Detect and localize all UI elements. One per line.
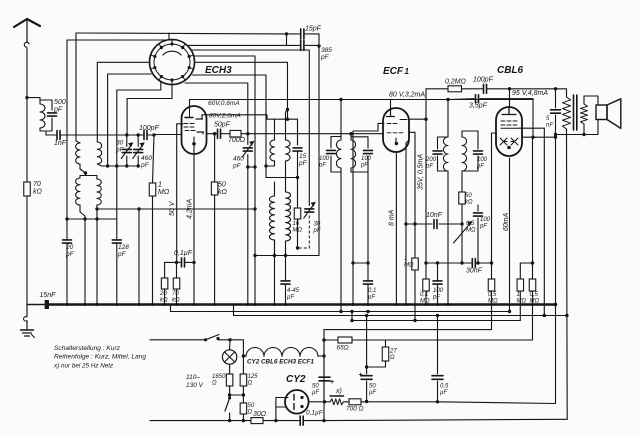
svg-text:4,2mA: 4,2mA <box>187 198 194 219</box>
wire 50pF line <box>207 133 384 135</box>
wire x139 <box>138 209 140 305</box>
wire ECF1 left el <box>353 123 384 304</box>
svg-text:kΩ: kΩ <box>160 298 168 304</box>
wire osc sec down <box>96 209 98 305</box>
label 100pF pot <box>479 217 491 230</box>
ground <box>21 305 35 338</box>
svg-text:0,5: 0,5 <box>466 221 475 227</box>
ECF1 grids <box>387 124 403 133</box>
label 50uF 1 <box>312 384 319 397</box>
wire osc L top <box>0 0 1 1</box>
label 50k <box>218 182 228 197</box>
label 50V <box>169 200 176 216</box>
label 100pF a <box>318 156 330 169</box>
svg-text:30nF: 30nF <box>466 268 483 275</box>
svg-text:460: 460 <box>233 156 244 163</box>
wire coil bottom <box>40 118 52 135</box>
svg-text:pF: pF <box>476 164 484 170</box>
label 95V <box>512 90 548 97</box>
capacitor 50uF 1 <box>319 340 334 402</box>
cap det R <box>462 131 483 171</box>
ECF1 el2 <box>400 119 407 121</box>
svg-text:kΩ: kΩ <box>465 200 473 206</box>
label 100ohm <box>346 406 364 413</box>
wire 15pF right <box>305 34 321 48</box>
label 10nF <box>426 212 443 219</box>
tube CBL6 <box>496 107 522 156</box>
svg-text:0,1: 0,1 <box>368 288 376 294</box>
svg-text:MΩ: MΩ <box>466 228 476 234</box>
wire osc L down <box>274 256 276 305</box>
label 01uF b <box>306 410 324 417</box>
wire antenna lead <box>26 48 28 182</box>
CY2 right wire <box>309 401 325 403</box>
text reihenfolge <box>54 354 146 361</box>
capacitor 100pF series <box>144 131 147 140</box>
svg-text:µF: µF <box>368 295 375 301</box>
capacitor 445 <box>281 256 290 305</box>
capacitor 15pF top <box>301 29 304 39</box>
label 20k <box>159 291 168 304</box>
wire pin rB <box>194 56 257 305</box>
label 15nF <box>40 292 57 299</box>
svg-text:50 V: 50 V <box>169 200 176 216</box>
wire x544 <box>543 128 546 317</box>
svg-text:CY2 CBL6 ECH3 ECF1: CY2 CBL6 ECH3 ECF1 <box>247 359 314 366</box>
resistor 70k b <box>173 262 180 304</box>
svg-text:460: 460 <box>141 155 152 162</box>
label 01uF <box>174 250 193 257</box>
speaker coil <box>581 96 599 135</box>
wire y395 <box>230 394 244 396</box>
label 1M b <box>517 292 527 305</box>
coil ant upper L <box>76 33 86 173</box>
wire pin lA <box>97 62 150 142</box>
svg-text:80 V,3,2mA: 80 V,3,2mA <box>389 91 425 98</box>
label 1M af <box>404 256 414 269</box>
resistor 700 Ohm <box>230 130 241 137</box>
label 100pF det <box>476 157 488 170</box>
switch 2 <box>225 397 231 423</box>
label 30nF <box>466 268 483 275</box>
bus junction <box>115 303 118 306</box>
capacitor 10nF <box>434 220 462 229</box>
resistor 50 Ohm <box>240 395 247 422</box>
svg-text:30Ω: 30Ω <box>253 411 267 418</box>
coil osc L <box>270 182 275 256</box>
wire pin rC <box>195 62 288 119</box>
svg-text:Reihenfolge : Kurz, Mittel, La: Reihenfolge : Kurz, Mittel, Lang <box>54 354 146 361</box>
bus junction <box>84 303 87 306</box>
wire 65 line a <box>324 339 338 341</box>
zigzag star resistor <box>325 396 350 405</box>
capacitor 0.1uF b <box>300 416 303 425</box>
wire pin rF <box>188 44 287 46</box>
trimmer 460pF <box>133 135 145 166</box>
svg-text:ECH3: ECH3 <box>205 65 232 76</box>
coil IF3 R <box>351 140 356 172</box>
potentiometer 0.5M <box>454 221 473 263</box>
svg-text:µF: µF <box>312 390 319 396</box>
svg-text:100: 100 <box>480 217 491 223</box>
svg-text:Ω: Ω <box>390 355 395 361</box>
svg-text:100pF: 100pF <box>139 125 160 132</box>
wire det feed <box>447 100 449 138</box>
node 35pF junction <box>446 98 449 101</box>
label 27ohm <box>389 349 397 362</box>
CBL6 grids <box>501 121 519 128</box>
wire CBL6 cathode <box>508 158 511 313</box>
trimmer 30pF <box>298 202 316 248</box>
wire IF3 feed <box>339 98 342 137</box>
node antenna junction <box>25 96 28 99</box>
wire x426 down <box>424 119 427 279</box>
wire grid line <box>60 134 182 137</box>
bus junction <box>273 303 276 306</box>
bus junction <box>405 303 408 306</box>
capacitor 50uF 2 <box>359 316 373 402</box>
svg-text:0,5: 0,5 <box>530 292 539 298</box>
svg-text:ECF: ECF <box>383 66 404 77</box>
svg-text:100: 100 <box>477 157 488 163</box>
wire CBL6 screen out <box>519 127 544 129</box>
svg-text:MΩ: MΩ <box>293 228 303 234</box>
loop IF3 top L <box>331 136 341 138</box>
svg-text:130 V: 130 V <box>186 382 204 389</box>
wire screen y115 <box>202 115 298 121</box>
stub 1M <box>520 261 534 264</box>
rail nodes <box>365 314 439 317</box>
rail y315 <box>234 305 567 316</box>
label ECH3 <box>205 65 232 76</box>
coil ant lower R <box>97 179 101 209</box>
wire CBL6 grid <box>492 133 497 263</box>
ECF1 cathode <box>395 138 398 145</box>
transformer core <box>574 95 577 130</box>
svg-text:1650: 1650 <box>212 374 226 380</box>
node plate ecf <box>0 0 1 1</box>
svg-text:kΩ: kΩ <box>33 189 43 196</box>
label 50k det <box>465 193 473 206</box>
wire x177 arm <box>177 124 183 263</box>
svg-text:pF: pF <box>313 228 321 234</box>
wire det prim down <box>447 171 449 305</box>
wire y262 <box>165 261 194 264</box>
capacitor 50pF <box>218 129 221 138</box>
tube CY2 <box>285 390 309 414</box>
CBL6 diodes <box>500 138 518 145</box>
ECF1 el3 <box>0 0 1 1</box>
coil IF2 L <box>266 119 275 166</box>
label pot 05M <box>466 221 476 234</box>
text footnote <box>53 363 114 370</box>
svg-text:65Ω: 65Ω <box>337 345 349 352</box>
resistor 100 Ohm <box>349 399 361 405</box>
label 100pF g <box>432 288 444 301</box>
label 42mA <box>187 198 194 219</box>
resistor 0.5M c <box>529 279 536 340</box>
resistor 27 Ohm <box>367 340 389 367</box>
svg-text:60V,0,6mA: 60V,0,6mA <box>208 100 240 107</box>
label 700 <box>228 137 246 144</box>
svg-text:1nF: 1nF <box>54 140 67 147</box>
resistor 50k det <box>459 179 466 226</box>
wire pin lC <box>117 82 161 220</box>
svg-text:MΩ: MΩ <box>530 299 540 305</box>
capacitor 20pF <box>63 240 72 305</box>
resistor 20k <box>161 262 168 304</box>
label 80V <box>209 113 241 120</box>
svg-text:385: 385 <box>321 47 332 54</box>
wire ECF1 plate top <box>390 100 392 109</box>
CY2 internals <box>294 395 304 410</box>
loop IF3 bot L <box>331 172 343 313</box>
label 15pF top <box>305 26 322 33</box>
svg-text:pF: pF <box>425 164 433 170</box>
resistor 1M af <box>409 132 418 322</box>
cap 100pF pot <box>474 205 483 265</box>
bus junction <box>213 303 216 306</box>
lamp <box>222 340 236 374</box>
node 50k top <box>213 132 216 135</box>
bus junction <box>193 303 196 306</box>
wire ground bus <box>27 304 556 306</box>
wire lower link <box>80 173 97 179</box>
wire y209 <box>97 207 255 210</box>
antenna <box>14 19 40 47</box>
label CBL6 <box>497 65 524 76</box>
svg-text:700Ω: 700Ω <box>228 137 246 144</box>
label 1nF <box>54 140 67 147</box>
svg-text:1: 1 <box>405 67 410 76</box>
label 30pF <box>313 222 321 235</box>
label 60V <box>208 100 240 107</box>
text schalterstellung <box>54 345 121 352</box>
capacitor 15pF if <box>293 148 302 208</box>
rail y311 <box>171 305 510 312</box>
wire y263 <box>426 261 493 264</box>
cap det L <box>433 137 448 171</box>
label 80V32 <box>389 91 425 98</box>
label CY2 <box>286 374 306 385</box>
coil ant upper R <box>97 142 107 166</box>
node g1 <box>125 133 128 136</box>
wire CBL6 diode right <box>522 136 557 139</box>
capacitor 0.1uF x367 <box>351 261 372 304</box>
svg-text:x) nur bei 25 Hz Netz: x) nur bei 25 Hz Netz <box>53 363 114 370</box>
svg-text:60mA: 60mA <box>503 212 510 231</box>
coil det L <box>443 137 448 171</box>
svg-text:700 Ω: 700 Ω <box>346 406 364 413</box>
resistor 0.2M <box>448 86 462 92</box>
bus junction <box>246 303 249 306</box>
label 50uF 2 <box>369 384 376 397</box>
coil ant lower L <box>76 178 85 305</box>
label 460pF 2 <box>232 156 244 170</box>
wire bottom left <box>150 420 251 422</box>
ECH3 cathode <box>192 137 196 146</box>
capacitor 3.5pF <box>448 95 533 138</box>
svg-text:kΩ: kΩ <box>172 298 180 304</box>
capacitor 128pF padder <box>112 219 121 305</box>
svg-text:110–: 110– <box>186 374 200 381</box>
label 30ohm <box>253 411 267 418</box>
tube ECH3 top view <box>150 40 195 85</box>
bus junction <box>395 303 398 306</box>
svg-text:pF: pF <box>479 224 487 230</box>
cap 100pF g <box>433 261 442 304</box>
label 100pF top <box>473 77 494 84</box>
label 385pF <box>320 47 332 61</box>
label 50pF <box>214 122 231 129</box>
switch mains <box>150 335 232 342</box>
wire switch to heater <box>230 340 243 374</box>
svg-text:pF: pF <box>298 160 308 167</box>
label 15pF if <box>298 153 308 167</box>
wire x567 <box>565 129 568 419</box>
tube ECF1 <box>383 108 409 152</box>
svg-text:0,5: 0,5 <box>440 384 449 390</box>
capacitor 1nF <box>57 131 60 140</box>
wire y177 branch <box>266 166 299 179</box>
label 05uF <box>440 384 449 397</box>
ECH3 triode arm <box>0 0 1 1</box>
capacitor 385pF <box>301 40 304 50</box>
wire y255 <box>255 46 319 257</box>
svg-text:pF: pF <box>140 162 150 169</box>
tube ECH3 hexode <box>182 106 207 154</box>
label 65ohm <box>337 345 349 352</box>
wire ECF1 cath <box>395 152 397 305</box>
wire 65 line b <box>352 339 533 341</box>
bus junction <box>436 303 439 306</box>
svg-text:100pF: 100pF <box>473 77 494 84</box>
coil osc R <box>286 192 291 248</box>
svg-text:pF: pF <box>320 54 330 61</box>
wire pin rE <box>185 83 250 135</box>
trimmer 70pF <box>121 135 133 166</box>
cap IF3 L <box>327 137 336 173</box>
wire 385 right <box>305 44 319 46</box>
svg-text:200: 200 <box>425 157 437 163</box>
svg-text:50: 50 <box>248 403 255 409</box>
capacitor 5nF <box>551 89 561 404</box>
label 1M <box>158 182 170 197</box>
wire 02M line <box>426 87 567 93</box>
rail3 y320 <box>350 310 520 322</box>
capacitor 0.5uF <box>432 316 443 402</box>
label heater names <box>247 359 314 366</box>
svg-text:CBL6: CBL6 <box>497 65 524 76</box>
label 500pF <box>53 99 66 114</box>
label 445 <box>287 288 300 301</box>
label ECF1 <box>383 66 410 77</box>
svg-text:15: 15 <box>299 153 307 160</box>
label 200pF <box>425 157 437 170</box>
bus end <box>554 303 558 307</box>
trimmer 460pF 2 <box>242 134 255 305</box>
svg-text:35V, 0,5mA: 35V, 0,5mA <box>418 154 425 190</box>
bus junction <box>447 303 450 306</box>
label 5nF <box>546 116 553 129</box>
svg-text:80V,2,6mA: 80V,2,6mA <box>209 113 241 120</box>
ECH3 g3 arm <box>197 132 204 134</box>
wire 15pF if feed <box>297 119 299 145</box>
svg-text:MΩ: MΩ <box>517 299 527 305</box>
wire x426 top <box>409 89 428 121</box>
loop IF3 bot R <box>351 172 370 313</box>
svg-text:125: 125 <box>248 374 259 380</box>
label 50ohm <box>248 403 255 416</box>
wire bottom mid <box>263 419 300 422</box>
svg-text:0,1: 0,1 <box>420 292 428 298</box>
svg-text:Schalterstellung : Kurz: Schalterstellung : Kurz <box>54 345 121 352</box>
label 35V <box>418 154 425 190</box>
svg-text:100: 100 <box>361 156 372 162</box>
svg-text:1: 1 <box>517 292 520 298</box>
label 460pF <box>140 155 152 169</box>
label 125 <box>248 374 259 387</box>
resistor 65 Ohm <box>338 337 352 343</box>
svg-text:0,1µF: 0,1µF <box>306 410 324 417</box>
wire x532 <box>532 137 534 279</box>
svg-text:15nF: 15nF <box>40 292 57 299</box>
svg-text:70: 70 <box>33 181 41 188</box>
svg-text:10nF: 10nF <box>426 212 443 219</box>
bus junction <box>175 303 178 306</box>
wire frame x67 <box>66 40 68 240</box>
label 100pF <box>139 125 160 132</box>
bus junction <box>367 303 370 306</box>
label 1650 <box>212 374 226 387</box>
svg-text:500: 500 <box>54 99 66 106</box>
bus junction <box>163 303 166 306</box>
resistor 0.5M agc <box>488 263 495 330</box>
label 01uF x367 <box>368 288 376 301</box>
svg-text:95 V,4,8mA: 95 V,4,8mA <box>512 90 548 97</box>
svg-text:µF: µF <box>369 390 376 396</box>
svg-text:µF: µF <box>287 295 294 301</box>
label 100pF b <box>360 156 372 169</box>
ECH3 grids <box>184 124 195 131</box>
wire IF3 grid <box>349 132 352 140</box>
bus junction <box>66 303 69 306</box>
wire pin rA <box>191 50 309 206</box>
svg-text:0,1µF: 0,1µF <box>174 250 193 257</box>
capacitor 30nF <box>472 259 475 268</box>
label 70k b <box>172 291 180 304</box>
svg-text:Ω: Ω <box>248 381 253 387</box>
ECF1 plate <box>387 108 395 117</box>
svg-text:pF: pF <box>65 251 75 258</box>
wire ECF1 right el <box>404 141 408 305</box>
svg-text:pF: pF <box>53 107 63 114</box>
ECH3 screen arm <box>196 116 203 120</box>
svg-text:20: 20 <box>65 244 74 251</box>
svg-text:15pF: 15pF <box>305 26 322 33</box>
svg-text:20: 20 <box>159 291 167 297</box>
label star <box>335 388 342 395</box>
wire bottom right <box>304 419 567 422</box>
svg-text:30: 30 <box>314 222 321 228</box>
svg-text:16: 16 <box>293 221 300 227</box>
wire 385 link <box>287 34 300 46</box>
heater chain <box>242 348 324 358</box>
svg-text:+: + <box>359 372 363 379</box>
wire speaker bottom <box>554 120 598 136</box>
label 110V <box>186 374 204 389</box>
svg-text:Ω: Ω <box>248 410 253 416</box>
